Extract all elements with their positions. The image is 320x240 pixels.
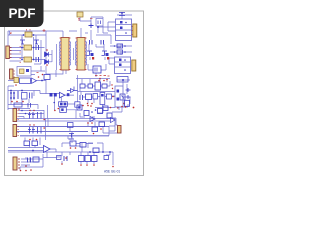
red dot r10 — [29, 139, 31, 141]
diode D3 — [45, 52, 49, 57]
junction dot b1 — [32, 150, 34, 152]
transistor Q4 — [93, 94, 98, 100]
capacitor C3 — [90, 40, 93, 45]
diode D8 — [67, 87, 78, 93]
resistor R23 — [57, 156, 62, 160]
wire transformer tops — [69, 28, 88, 37]
wire right tail — [106, 152, 110, 155]
wire u5 right — [95, 80, 130, 110]
red dot q8c — [91, 122, 93, 124]
red dot k4c — [117, 107, 119, 109]
diode D9 — [126, 95, 131, 99]
resistor R11 — [70, 141, 76, 146]
wire bridge row b — [10, 54, 45, 61]
red dot r9 — [29, 124, 30, 125]
wire mid bus left — [8, 86, 40, 110]
resistor R10 — [24, 141, 30, 146]
red dot r18 — [93, 133, 95, 135]
junction dot cx1a — [23, 34, 25, 36]
diode D5 — [89, 24, 94, 29]
wire bottom bus — [8, 152, 113, 165]
red dot c7a — [11, 101, 13, 103]
regulator U4 — [59, 102, 68, 107]
wire mid right link — [112, 95, 115, 97]
resistor R22 — [107, 94, 112, 99]
wire left vertical — [7, 31, 9, 46]
diode D11 — [117, 98, 120, 101]
red dot r1 — [18, 108, 20, 110]
wire row4 links — [19, 104, 93, 158]
varistor RV2 — [34, 40, 39, 44]
red dot q5 — [121, 106, 123, 108]
junction dot e — [95, 109, 97, 111]
wire cap c6 — [117, 44, 121, 47]
diode D7 — [126, 88, 131, 92]
red dot r7a — [87, 103, 89, 105]
resistor R7 — [86, 94, 92, 100]
wire rail2 — [17, 120, 110, 122]
capacitor C7d — [30, 93, 33, 99]
junction dot c7a — [10, 90, 12, 92]
resistor R21 — [33, 157, 39, 162]
PDF badge — [0, 0, 44, 27]
red dot r8 — [29, 110, 30, 111]
junction dot j5b — [25, 113, 27, 115]
line filter FL2 — [115, 57, 131, 74]
capacitor CX1 — [25, 32, 32, 37]
wire filter2 feeds — [109, 51, 121, 64]
red dot u6 — [54, 110, 56, 112]
relay K1 — [17, 67, 31, 77]
capacitor C8 — [80, 95, 83, 100]
resistor R18 — [92, 127, 98, 132]
red dot u6b — [58, 108, 60, 110]
resistor R3 — [54, 93, 57, 97]
red dot q7 — [123, 103, 125, 105]
wire opamp inputs — [50, 149, 56, 152]
mosfet Q3 — [93, 66, 101, 73]
red dot c10 — [25, 165, 27, 167]
capacitor C15 — [28, 112, 35, 119]
junction dot b2 — [89, 151, 91, 153]
buffer U2b — [32, 78, 37, 83]
wire rail5 — [20, 135, 109, 137]
resistor R14 — [77, 105, 82, 110]
connector J7 — [13, 157, 17, 170]
capacitor C4 — [101, 40, 104, 45]
junction dot cx1b — [33, 34, 35, 36]
rectifier BR1 — [24, 45, 32, 50]
junction dot b3 — [102, 151, 104, 153]
wire right drop — [103, 107, 122, 133]
IC U11 — [100, 93, 105, 105]
red dot d4 — [46, 64, 48, 66]
connector J5 — [13, 109, 17, 122]
red dot r11a — [70, 147, 72, 149]
relay K2 — [96, 19, 103, 27]
junction dot br1b — [33, 47, 35, 49]
red label left — [10, 32, 12, 34]
wire top bus — [8, 31, 63, 41]
junction dot u2c — [41, 80, 43, 82]
red dot k4b — [112, 88, 113, 89]
red dot d3 — [46, 49, 48, 51]
junction dot c7b — [21, 90, 23, 92]
varistor RV1 — [20, 40, 25, 44]
red dot rail3 — [43, 127, 45, 129]
wire relay k1 — [31, 66, 45, 75]
red dot q8 — [90, 105, 92, 107]
red dot u2b — [38, 76, 40, 78]
red dot j7a — [20, 170, 22, 172]
red dot rail1 — [43, 119, 45, 121]
wire transformer bottom left — [46, 66, 66, 77]
red dot j7b — [25, 170, 27, 172]
capacitor C10 — [28, 158, 31, 163]
junction node B — [122, 79, 124, 81]
relay K4 — [117, 77, 128, 83]
red dot q6a — [80, 164, 82, 166]
transistor Q6b — [85, 156, 91, 162]
red dot k3b — [98, 80, 100, 82]
capacitor C14 — [68, 123, 74, 128]
op-amp U3 — [60, 92, 66, 98]
wire rail4 — [17, 131, 88, 133]
relay K3 — [95, 82, 101, 90]
red labels top — [95, 75, 110, 78]
rectifier BR2 — [24, 57, 32, 62]
red dot r20 — [36, 139, 38, 141]
red dot r17 — [133, 107, 135, 109]
connector J2 — [10, 69, 14, 79]
resistor R19 — [99, 122, 105, 127]
wire mid verticals — [46, 75, 78, 119]
red glyph k1 — [37, 72, 39, 74]
comparator U8 — [44, 146, 51, 153]
junction dot br2b — [33, 59, 35, 61]
junction node A — [97, 26, 99, 28]
transistor Q1 — [87, 51, 93, 56]
svg-text:PDF: PDF — [9, 6, 36, 21]
box U10 — [75, 102, 80, 107]
red dot k3c — [103, 80, 105, 82]
red dot title — [112, 166, 114, 168]
capacitor C5 — [119, 13, 125, 16]
resistor R12 — [80, 143, 86, 148]
red dot q8b — [87, 122, 89, 124]
capacitor C13 — [67, 93, 70, 96]
red dot q5b — [125, 106, 127, 108]
resistor R2 — [50, 93, 53, 97]
red dot r8b — [33, 110, 34, 111]
connector J6 — [13, 125, 17, 137]
connector J1 — [6, 46, 10, 59]
red dot d6 — [112, 96, 114, 98]
transformer T2 — [77, 38, 85, 71]
transistor Q7 — [120, 94, 125, 100]
red pins T1 — [60, 38, 71, 70]
transistor Q8 — [98, 109, 103, 114]
red pin marks j1 — [20, 47, 22, 63]
capacitor bank C7 — [10, 91, 18, 100]
resistor R15 — [84, 111, 89, 116]
wire right cluster — [76, 79, 110, 91]
red dot r9b — [33, 124, 34, 125]
capacitor C11 — [69, 134, 74, 140]
wire between transformers — [57, 44, 74, 70]
red dot c9b — [65, 157, 67, 159]
wire filter1 feeds — [103, 22, 116, 33]
wire amp row — [8, 80, 46, 82]
red dot k4a — [111, 84, 112, 85]
wire rail3 — [17, 126, 109, 128]
wire q1 q2 — [89, 44, 105, 60]
wire mosfet — [88, 64, 106, 77]
wire row4 comps — [48, 109, 115, 136]
rectifier U5 — [115, 86, 123, 107]
red dot k3 — [99, 78, 101, 80]
wire bridge row a — [10, 48, 45, 51]
red dot r19 — [100, 128, 102, 130]
transformer T1 — [61, 38, 69, 71]
connector J3 — [133, 24, 137, 37]
LED DS1 — [118, 126, 122, 134]
resistor R1 — [14, 103, 22, 107]
transistor Q9 — [92, 156, 98, 162]
resistor R4 — [80, 84, 85, 88]
transistor Q6 — [79, 156, 85, 162]
junction dot c — [53, 102, 55, 104]
red dot q6b — [86, 164, 88, 166]
IC U6 — [60, 107, 67, 112]
wire mid bus center — [40, 92, 115, 96]
resistor R16 — [103, 106, 108, 111]
junction dot br2a — [21, 59, 23, 61]
wire conn j7 — [20, 154, 43, 170]
wire mid verticals left — [34, 40, 52, 64]
resistor RC row1 — [110, 45, 132, 47]
capacitor C9 — [64, 156, 67, 161]
resistor R13 — [93, 148, 99, 153]
wire below bus — [57, 147, 94, 164]
wire top feeds — [8, 138, 103, 159]
capacitor C18 — [38, 127, 42, 134]
ladder verticals — [22, 37, 34, 60]
red dot q6c — [93, 164, 95, 166]
box U9 — [44, 75, 50, 80]
diode D12 — [111, 118, 116, 123]
red label top — [43, 29, 46, 32]
red dot r7b — [91, 103, 93, 105]
red mark d5 — [90, 18, 93, 20]
connector J4 — [132, 60, 136, 71]
inductor L1 yellow — [14, 78, 19, 83]
red ticks cx1 — [11, 29, 31, 34]
wire fuse link — [80, 17, 103, 21]
wire rail1 — [17, 118, 115, 120]
junction dot j5a — [21, 110, 23, 112]
junction dot d — [91, 111, 93, 113]
wire rail drop — [45, 119, 47, 141]
capacitor C7b — [22, 93, 28, 100]
page background — [0, 0, 149, 198]
IC U2 — [20, 78, 31, 84]
red dot r14b — [87, 105, 89, 107]
resistor R6 — [102, 84, 107, 88]
red dot u2 — [15, 84, 17, 86]
red pins T2 — [76, 38, 87, 70]
red dot c9 — [61, 163, 63, 165]
wire left cap row — [11, 99, 29, 105]
resistor R5 — [88, 84, 93, 88]
red dot c7c — [22, 101, 24, 103]
capacitor C2 — [36, 57, 39, 62]
transistor Q2 — [102, 51, 108, 56]
wire below rails — [68, 131, 72, 139]
wire row1 — [8, 31, 46, 62]
wire cap c5 — [117, 15, 132, 19]
wire right cluster2 — [81, 92, 115, 108]
capacitor C1 — [36, 45, 39, 50]
wire ac bus — [91, 17, 116, 44]
line filter FL1 — [116, 19, 132, 41]
red dot r11b — [75, 147, 77, 149]
fuse F1 — [77, 12, 83, 17]
red dot u9 — [42, 74, 44, 76]
junction dot br1a — [21, 47, 23, 49]
red dot r14a — [82, 105, 84, 107]
diode D4 — [45, 60, 49, 65]
capacitor C7c — [28, 103, 31, 108]
resistor R20 — [32, 141, 38, 146]
resistor RC row2 — [110, 51, 132, 53]
red dot r16 — [110, 107, 112, 109]
diode D13 — [90, 117, 95, 122]
red dot r6 — [106, 79, 108, 81]
transistor Q5 — [107, 113, 112, 118]
red label f1 — [78, 19, 80, 22]
red dot c7b — [16, 101, 18, 103]
diode D10 — [117, 90, 120, 93]
wire cx1 link — [9, 31, 11, 35]
resistor R17 — [125, 100, 130, 106]
capacitor C17 — [28, 127, 35, 134]
schematic sheet frame — [5, 11, 144, 176]
red dot c10b — [30, 169, 32, 171]
capacitor C16 — [38, 112, 42, 119]
junction dot b4 — [109, 151, 111, 153]
resistor R24 — [104, 156, 109, 160]
svg-text:A5E GE-01: A5E GE-01 — [104, 170, 120, 174]
